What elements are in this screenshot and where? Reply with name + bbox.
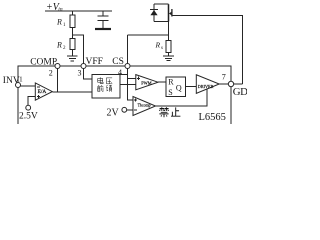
svg-text:2: 2 — [63, 46, 66, 51]
svg-text:in: in — [58, 7, 63, 13]
svg-text:GD: GD — [233, 86, 247, 98]
svg-text:CS: CS — [112, 57, 124, 67]
svg-text:Tbcomp: Tbcomp — [138, 104, 151, 108]
svg-text:R: R — [56, 18, 62, 27]
svg-text:E/A: E/A — [38, 89, 47, 95]
svg-text:R: R — [155, 41, 161, 50]
svg-text:2V: 2V — [107, 108, 120, 119]
svg-text:1: 1 — [19, 74, 23, 83]
svg-text:R: R — [56, 41, 62, 50]
svg-text:3: 3 — [78, 69, 82, 78]
svg-text:2: 2 — [49, 69, 53, 78]
svg-text:VFF: VFF — [86, 57, 103, 67]
svg-text:s: s — [161, 46, 163, 51]
svg-text:DRIVER: DRIVER — [198, 84, 214, 89]
svg-text:7: 7 — [222, 73, 226, 82]
svg-text:COMP: COMP — [30, 57, 57, 67]
svg-text:PWM: PWM — [141, 80, 151, 85]
svg-text:Q: Q — [176, 83, 182, 92]
svg-text:1: 1 — [63, 23, 66, 28]
svg-text:2.5V: 2.5V — [19, 111, 38, 121]
svg-text:S: S — [168, 88, 172, 97]
svg-text:R: R — [168, 78, 174, 87]
svg-text:L6565: L6565 — [199, 112, 226, 123]
